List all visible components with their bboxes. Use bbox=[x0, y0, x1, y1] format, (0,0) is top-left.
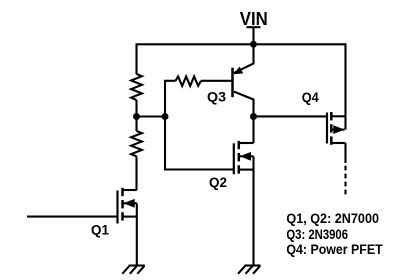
ground Q2 source bbox=[238, 266, 261, 274]
wire Q1 source to ground bbox=[136, 217, 138, 266]
wire Q2 source to ground bbox=[252, 170, 254, 266]
svg-text:Q4: Q4 bbox=[302, 89, 319, 105]
wire left drop bbox=[135, 43, 137, 74]
svg-text:Q3: 2N3906: Q3: 2N3906 bbox=[286, 226, 348, 242]
wire Q4 drain down bbox=[344, 143, 346, 163]
transistor Q1 (NFET 2N7000) bbox=[118, 188, 137, 224]
svg-text:Q2: Q2 bbox=[209, 174, 227, 190]
wire node to R2 bbox=[135, 117, 137, 132]
svg-text:Q4: Power PFET: Q4: Power PFET bbox=[286, 241, 383, 257]
wire VIN to rail bbox=[252, 27, 254, 44]
resistor R2 bbox=[131, 131, 142, 156]
transistor Q3 (PNP 2N3906) bbox=[233, 44, 254, 116]
wire R1 to node bbox=[135, 100, 137, 117]
ground Q1 source bbox=[122, 266, 145, 274]
VIN terminal bar bbox=[247, 26, 261, 28]
wire junction to Q4 gate bbox=[254, 115, 328, 117]
svg-text:Q3: Q3 bbox=[207, 88, 226, 104]
wire R2 to Q1 drain bbox=[135, 156, 137, 190]
svg-text:Q1, Q2: 2N7000: Q1, Q2: 2N7000 bbox=[286, 210, 379, 226]
resistor R1 bbox=[131, 74, 142, 100]
wire top rail bbox=[137, 43, 346, 45]
node R1/R2 bbox=[133, 113, 140, 120]
wire R3 to Q3 base bbox=[201, 80, 233, 82]
svg-text:VIN: VIN bbox=[240, 9, 268, 29]
transistor Q2 (NFET 2N7000) bbox=[234, 141, 254, 175]
resistor R3 bbox=[176, 76, 202, 86]
transistor Q4 (Power PFET) bbox=[327, 112, 346, 145]
wire node link bbox=[137, 115, 166, 117]
node Q3 collector junction bbox=[250, 113, 257, 120]
wire tap up to R3 bbox=[165, 81, 176, 117]
node VIN junction bbox=[250, 41, 257, 48]
wire right drop to Q4 bbox=[344, 43, 346, 116]
node divider tap bbox=[162, 113, 169, 120]
wire dashed load continuation bbox=[344, 166, 346, 195]
svg-text:Q1: Q1 bbox=[91, 221, 109, 237]
wire input to Q1 gate bbox=[27, 216, 118, 218]
wire tap down to Q2 gate bbox=[165, 117, 234, 170]
wire junction to Q2 drain bbox=[252, 117, 254, 144]
